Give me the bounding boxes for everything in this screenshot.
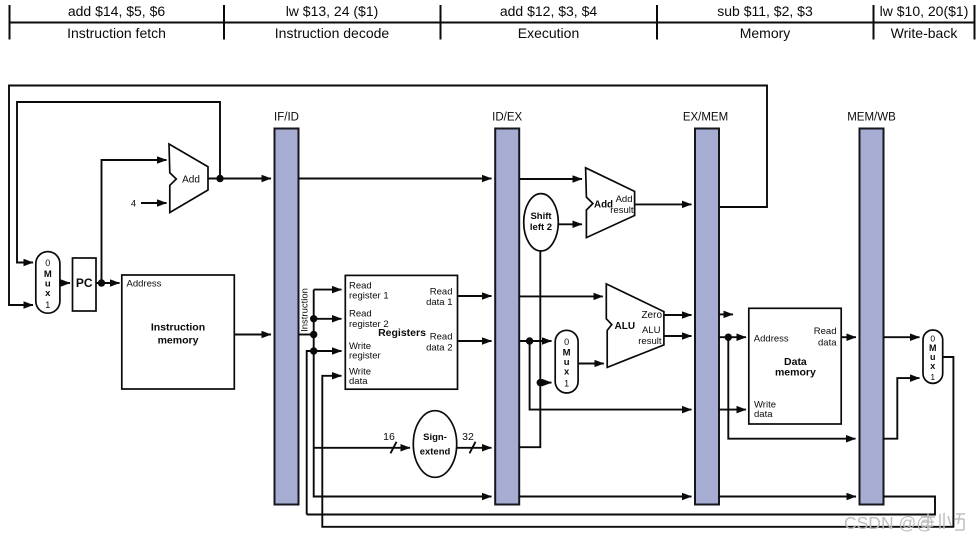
svg-text:Instruction fetch: Instruction fetch	[67, 25, 166, 41]
instruction memory	[122, 275, 235, 389]
svg-text:Instruction decode: Instruction decode	[275, 25, 390, 41]
wire Add output to IF/ID	[209, 178, 272, 180]
node instruction input junction	[310, 331, 317, 338]
wire Read data 2 ID/EX to ALU mux	[519, 340, 551, 342]
svg-text:register 1: register 1	[349, 291, 389, 302]
svg-text:16: 16	[383, 431, 395, 443]
wire instruction to Read register 2	[314, 318, 342, 320]
svg-text:x: x	[564, 367, 570, 378]
svg-text:x: x	[45, 288, 51, 299]
watermark CSDN	[844, 513, 965, 533]
sign-extend unit	[413, 411, 456, 478]
svg-text:PC: PC	[76, 276, 93, 290]
node write register junction	[310, 347, 317, 354]
svg-text:result: result	[638, 336, 662, 347]
svg-text:0: 0	[930, 334, 935, 344]
wire write data EX/MEM to data memory	[719, 409, 746, 411]
svg-text:data: data	[754, 409, 773, 420]
svg-text:Registers: Registers	[378, 327, 426, 339]
pipeline register IF/ID	[274, 112, 299, 505]
wire PC+4 IF/ID to ID/EX	[299, 178, 492, 180]
wire Read data 2 branch to write data path	[530, 341, 692, 410]
svg-text:Read: Read	[430, 332, 453, 343]
adder Add (PC+4)	[169, 144, 208, 213]
wire immediate to ALU mux input 1	[540, 382, 551, 384]
svg-text:extend: extend	[420, 447, 451, 458]
wire Zero to EX/MEM	[664, 314, 692, 316]
svg-text:data: data	[349, 376, 368, 387]
svg-text:1: 1	[930, 372, 935, 382]
svg-text:0: 0	[45, 258, 50, 268]
node PC output junction	[98, 279, 105, 286]
op-amp ALU	[606, 284, 664, 368]
wire PC value up to Add input	[102, 160, 167, 283]
timeline instruction labels	[68, 3, 969, 19]
wire ALU result bypass to MEM/WB	[728, 337, 855, 439]
node Add output junction	[216, 175, 223, 182]
svg-text:Read: Read	[430, 287, 453, 298]
svg-text:memory: memory	[158, 335, 199, 347]
wire sign-extend output to ID/EX	[457, 447, 492, 449]
svg-text:4: 4	[131, 199, 136, 210]
wire Zero stub after EX/MEM	[719, 313, 733, 315]
svg-text:32: 32	[462, 431, 474, 443]
wire PC+4 to PC mux input 0	[17, 102, 220, 263]
mux M3 (write-back)	[923, 330, 943, 383]
wire branch adder result to EX/MEM	[636, 203, 692, 205]
wire slash 16	[391, 442, 397, 454]
timeline axis	[9, 5, 975, 40]
wire PC mux output to PC	[60, 282, 70, 284]
svg-text:ID/EX: ID/EX	[492, 112, 522, 124]
mux M1 (PC source)	[36, 252, 60, 314]
svg-text:sub $11, $2, $3: sub $11, $2, $3	[717, 3, 813, 19]
svg-text:Address: Address	[127, 279, 162, 290]
svg-text:lw $10, 20($1): lw $10, 20($1)	[880, 3, 969, 19]
wire instruction immediate to sign-extend	[314, 447, 410, 449]
timeline stage labels	[67, 25, 958, 41]
node instruction junction read register 2	[310, 315, 317, 322]
svg-text:Write-back: Write-back	[891, 25, 959, 41]
svg-text:Add: Add	[182, 175, 200, 186]
svg-text:Read: Read	[814, 326, 837, 337]
svg-text:Add: Add	[616, 194, 633, 205]
data memory	[749, 308, 841, 424]
wire read data to MEM/WB	[841, 336, 856, 338]
svg-text:data 2: data 2	[426, 343, 452, 354]
svg-text:Shift: Shift	[530, 211, 552, 222]
node ALU result junction	[725, 334, 732, 341]
svg-text:Instruction: Instruction	[151, 322, 205, 334]
wire read data MEM/WB to WB mux input 0	[884, 336, 920, 338]
svg-text:lw $13, 24 ($1): lw $13, 24 ($1)	[286, 3, 379, 19]
registers file	[345, 275, 457, 389]
svg-text:EX/MEM: EX/MEM	[683, 112, 728, 124]
svg-text:left 2: left 2	[530, 222, 552, 233]
svg-text:ALU: ALU	[642, 325, 661, 336]
wire PC+4 ID/EX to branch adder	[519, 178, 582, 180]
wire ALU result to EX/MEM	[664, 335, 692, 337]
pipeline register EX/MEM	[683, 112, 728, 505]
wire branch feedback (EX/MEM to PC mux input 1)	[9, 86, 767, 306]
wire Read data 1 to ID/EX	[458, 295, 492, 297]
svg-text:0: 0	[564, 337, 569, 347]
wire ALU result MEM/WB to WB mux input 1	[884, 378, 920, 439]
wire instruction memory output to IF/ID	[234, 334, 271, 336]
wire sign-extend ID/EX output up to shift left 2	[519, 252, 540, 448]
wire instruction out of IF/ID	[299, 334, 314, 336]
wire instruction to Read register 1	[314, 289, 342, 291]
wire Read data 1 ID/EX to ALU	[519, 295, 603, 297]
wire slash 32	[470, 442, 476, 454]
mux M2 (ALU operand B)	[555, 330, 578, 393]
adder Add2 (branch target)	[586, 168, 635, 238]
pipeline register MEM/WB	[847, 112, 896, 505]
wire shift left 2 to branch adder	[558, 223, 582, 225]
svg-text:data: data	[818, 338, 837, 349]
wire write register number through pipeline (MEM/WB)	[719, 496, 856, 498]
svg-text:Execution: Execution	[518, 25, 579, 41]
wire ALU mux output to ALU	[578, 363, 604, 365]
svg-text:add $12, $3, $4: add $12, $3, $4	[500, 3, 598, 19]
svg-text:1: 1	[45, 300, 50, 310]
wire instruction bus vertical	[314, 290, 492, 497]
wire ALU result EX/MEM to data memory Address	[719, 336, 746, 338]
wire write register number through pipeline (EX/MEM)	[519, 496, 691, 498]
svg-text:Address: Address	[754, 334, 789, 345]
svg-text:Memory: Memory	[740, 25, 791, 41]
svg-text:1: 1	[564, 379, 569, 389]
shift left 2 unit	[524, 194, 559, 251]
svg-text:Sign-: Sign-	[423, 432, 447, 443]
svg-text:add $14, $5, $6: add $14, $5, $6	[68, 3, 166, 19]
svg-text:result: result	[610, 205, 634, 216]
wire write register number return path	[307, 497, 935, 515]
svg-text:ALU: ALU	[615, 321, 636, 332]
wire PC to instruction memory Address	[96, 282, 120, 284]
svg-text:IF/ID: IF/ID	[274, 112, 299, 124]
svg-text:x: x	[930, 361, 935, 371]
svg-text:CSDN @@: CSDN @@	[844, 513, 934, 533]
wire Read data 2 to ID/EX	[458, 340, 492, 342]
wire write-back mux output to Write data	[322, 357, 953, 527]
node read data 2 junction	[526, 337, 533, 344]
svg-text:Instruction: Instruction	[299, 288, 310, 332]
wire write register number return to Write register	[307, 351, 342, 515]
svg-text:MEM/WB: MEM/WB	[847, 112, 896, 124]
svg-text:Zero: Zero	[641, 310, 662, 321]
svg-text:register: register	[349, 351, 381, 362]
svg-text:memory: memory	[775, 367, 816, 379]
register PC	[73, 258, 97, 311]
node immediate junction	[537, 379, 544, 386]
pipeline register ID/EX	[492, 112, 522, 505]
wire constant 4 into Add	[141, 202, 167, 204]
svg-text:data 1: data 1	[426, 297, 452, 308]
